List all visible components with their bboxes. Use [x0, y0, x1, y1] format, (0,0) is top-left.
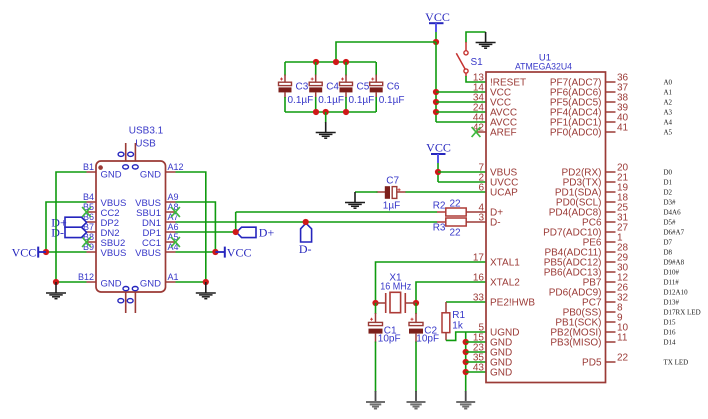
pin 29 PB5(ADC12) [606, 261, 616, 263]
svg-text:A5: A5 [664, 128, 673, 136]
svg-text:16 MHz: 16 MHz [380, 282, 411, 293]
svg-text:3: 3 [478, 213, 484, 224]
svg-text:22: 22 [617, 353, 629, 364]
node top rail junctions [313, 59, 319, 65]
svg-text:R1: R1 [452, 310, 465, 321]
no-connect A8 [171, 207, 180, 217]
connector USB3.1 body [96, 161, 166, 292]
pin A7 DN1 [166, 221, 176, 223]
svg-text:UCAP: UCAP [490, 188, 518, 199]
wire C2 to ground [415, 342, 417, 393]
wire to pin 44 AVCC [436, 121, 486, 123]
svg-text:D17RX LED: D17RX LED [664, 308, 701, 316]
pin 19 PD1(SDA) [606, 191, 616, 193]
wire PE2!HWB pin 33 to R1 [446, 301, 486, 303]
svg-text:C3: C3 [296, 82, 309, 93]
no-connect AREF [472, 127, 481, 137]
wire A1 GND [176, 281, 206, 283]
net flag D+ at DP2 [65, 217, 87, 227]
pin B7 DN2 [87, 231, 97, 233]
capacitor C1 10pF [375, 303, 377, 314]
wire switch S1 to ground [466, 32, 486, 43]
net flag D+ [236, 227, 256, 237]
node D+ junction [233, 229, 239, 235]
svg-text:D10#: D10# [664, 268, 680, 276]
pin 41 PF0(ADC0) [606, 131, 616, 133]
svg-text:16: 16 [473, 273, 485, 284]
svg-text:6: 6 [478, 183, 484, 194]
capacitor C2 10pF [415, 303, 417, 314]
wire to pin 24 AVCC [436, 111, 486, 113]
ground below C2 [415, 391, 417, 401]
svg-text:D-: D- [299, 242, 312, 256]
pin 1 PE6 [606, 241, 616, 243]
wire VCC stem to junction [435, 32, 437, 42]
svg-text:D9#A8: D9#A8 [664, 258, 685, 266]
svg-text:S1: S1 [471, 57, 484, 68]
wire decoupling top rail [285, 61, 376, 63]
svg-text:VCC: VCC [426, 141, 451, 155]
node GND junctions [463, 339, 469, 345]
node VCC junction at rail feed [433, 39, 439, 45]
pin 42 AREF [476, 131, 486, 133]
svg-text:A0: A0 [664, 78, 673, 86]
wire DP1 to D+ node [176, 231, 236, 233]
pin 31 PC6 [606, 221, 616, 223]
svg-text:D7: D7 [664, 238, 673, 246]
shield pins bottom [125, 292, 127, 313]
svg-text:VCC: VCC [227, 246, 252, 260]
svg-text:A6: A6 [168, 222, 179, 232]
svg-text:0.1µF: 0.1µF [318, 95, 344, 106]
shield pins top [125, 143, 127, 161]
wire B12 GND [56, 281, 87, 283]
pin B8 SBU2 [87, 241, 97, 243]
svg-text:0.1µF: 0.1µF [288, 95, 314, 106]
wire A9 VBUS down [176, 202, 216, 252]
pin A6 DP1 [166, 231, 176, 233]
svg-text:A1: A1 [168, 272, 179, 282]
wire D+ net row [236, 211, 438, 213]
svg-text:A9: A9 [168, 192, 179, 202]
ground at switch S1 [485, 32, 487, 43]
svg-text:10pF: 10pF [378, 334, 401, 345]
svg-text:43: 43 [473, 363, 485, 374]
node GND-left junction [53, 279, 59, 285]
pin B6 DP2 [87, 221, 97, 223]
node bottom rail junctions [313, 109, 319, 115]
wire decoupling bottom rail [285, 111, 376, 113]
pin 8 PB0(SS) [606, 311, 616, 313]
svg-text:PB3(MISO): PB3(MISO) [550, 338, 601, 349]
svg-text:D0: D0 [664, 168, 673, 176]
pin 1 marker [98, 165, 103, 170]
pin 26 PD6(ADC9) [606, 291, 616, 293]
svg-text:A2: A2 [664, 98, 673, 106]
wire B4 VBUS down [46, 202, 87, 252]
svg-text:GND: GND [101, 279, 122, 290]
svg-text:11: 11 [617, 333, 628, 344]
svg-text:R3: R3 [433, 223, 446, 234]
svg-text:PF0(ADC0): PF0(ADC0) [550, 128, 602, 139]
pin B5 CC2 [87, 211, 97, 213]
svg-text:D11#: D11# [664, 278, 680, 286]
no-connect B5 [82, 207, 91, 217]
svg-text:22: 22 [450, 199, 462, 210]
resistor R3 22 [437, 221, 446, 223]
wire D- net row DN1 to R3 [176, 221, 438, 223]
pin A9 VBUS [166, 201, 176, 203]
pin 32 PC7 [606, 301, 616, 303]
svg-text:D-: D- [51, 226, 64, 240]
wire to pin 14 VCC [436, 91, 486, 93]
node D- junction [303, 219, 309, 225]
node GND-right junction [203, 279, 209, 285]
svg-text:B12: B12 [78, 272, 94, 282]
ground right of USB [205, 282, 207, 293]
svg-text:TX LED: TX LED [664, 358, 689, 366]
svg-text:0.1µF: 0.1µF [379, 95, 405, 106]
net flag D- at DN2 [65, 227, 87, 237]
wire VCC vertical to IC power pins [435, 42, 437, 122]
ground below C1 [375, 391, 377, 401]
wire switch S1 to pin 13 !RESET [465, 73, 467, 76]
pin 25 PD4(ADC8) [606, 211, 616, 213]
pin 27 PD7(ADC10) [606, 231, 616, 233]
svg-text:C7: C7 [386, 176, 399, 187]
pin 37 PF6(ADC6) [606, 91, 616, 93]
svg-text:PE2!HWB: PE2!HWB [490, 298, 535, 309]
svg-text:D14: D14 [664, 338, 677, 346]
pin A12 GND [166, 171, 176, 173]
svg-text:XTAL2: XTAL2 [490, 278, 520, 289]
svg-text:10pF: 10pF [416, 334, 439, 345]
wire A12 GND down to A1 [176, 172, 206, 282]
pin 40 PF1(ADC1) [606, 121, 616, 123]
net flag D- [301, 223, 312, 242]
wire to UVCC pin 2 [438, 181, 486, 183]
wire XTAL1 pin 17 [376, 262, 487, 303]
pin 10 PB2(MOSI) [606, 331, 616, 333]
resistor R1 1k [445, 302, 447, 313]
svg-text:B1: B1 [83, 162, 94, 172]
pin 11 PB3(MISO) [606, 341, 616, 343]
capacitor C4 0.1uF [315, 62, 317, 76]
svg-text:A4: A4 [664, 118, 673, 126]
wire to GND pin 35 [466, 361, 486, 363]
wire D+ vertical from DP1 [235, 212, 237, 232]
capacitor C6 0.1uF [375, 62, 377, 76]
pin A5 CC1 [166, 241, 176, 243]
power symbol VCC left [38, 251, 46, 253]
svg-text:D4A6: D4A6 [664, 208, 682, 216]
ground below GND bus [465, 391, 467, 401]
ground below decoupling caps [325, 112, 327, 123]
wire to GND pin 23 [466, 351, 486, 353]
wire UCAP pin 6 to C7 [405, 191, 486, 193]
svg-text:D12A10: D12A10 [664, 288, 689, 296]
capacitor C7 1uF [377, 191, 386, 193]
wire C7 to ground [355, 191, 378, 193]
svg-text:17: 17 [473, 253, 485, 264]
svg-text:C4: C4 [326, 82, 339, 93]
switch S1 [465, 42, 467, 51]
pin 12 PB7 [606, 281, 616, 283]
pin B4 VBUS [87, 201, 97, 203]
ground at C7 [354, 192, 356, 203]
wire VCC feed to decoupling rail [336, 42, 436, 62]
pin 21 PD3(TX) [606, 181, 616, 183]
svg-text:D1: D1 [664, 178, 673, 186]
node VCC pin junctions [433, 89, 439, 95]
no-connect A5 [171, 237, 180, 247]
svg-text:GND: GND [140, 170, 161, 181]
wire to GND pin 43 [466, 371, 486, 373]
capacitor C5 0.1uF [345, 62, 347, 76]
svg-text:R2: R2 [433, 201, 446, 212]
svg-text:D15: D15 [664, 318, 677, 326]
svg-text:VCC: VCC [12, 246, 37, 260]
resistor R2 22 [437, 211, 446, 213]
svg-text:C5: C5 [357, 82, 370, 93]
svg-text:USB: USB [135, 139, 156, 150]
svg-text:A3: A3 [664, 108, 673, 116]
wire GND bus vertical [465, 332, 467, 392]
node VCC-left junction [43, 249, 49, 255]
pin B9 VBUS [87, 251, 97, 253]
node VCC-right junction [212, 249, 218, 255]
wire R1 to UGND pin 5 [446, 332, 486, 340]
svg-text:A12: A12 [168, 162, 184, 172]
pin 22 PD5 [606, 361, 616, 363]
wire C1 to ground [375, 342, 377, 393]
pin A1 GND [166, 281, 176, 283]
svg-text:D-: D- [490, 218, 501, 229]
svg-text:GND: GND [140, 279, 161, 290]
svg-text:D+: D+ [259, 226, 275, 240]
pin A4 VBUS [166, 251, 176, 253]
wire B1 GND down to B12 [56, 172, 87, 282]
pin 39 PF4(ADC4) [606, 111, 616, 113]
svg-text:XTAL1: XTAL1 [490, 258, 520, 269]
IC U1 ATMEGA32U4 body [486, 72, 606, 383]
wire A4 VBUS [176, 251, 216, 253]
svg-text:USB3.1: USB3.1 [129, 126, 164, 137]
svg-text:AREF: AREF [490, 128, 517, 139]
wire XTAL2 pin 16 [416, 282, 486, 303]
svg-text:D8: D8 [664, 248, 673, 256]
svg-text:GND: GND [101, 170, 122, 181]
svg-text:D13#: D13# [664, 298, 680, 306]
svg-text:ATMEGA32U4: ATMEGA32U4 [515, 62, 572, 73]
wire VCC to VBUS pin 7 [437, 163, 439, 182]
svg-text:0.1µF: 0.1µF [349, 95, 375, 106]
wire B9 VBUS [46, 251, 87, 253]
svg-text:C6: C6 [387, 82, 400, 93]
capacitor C3 0.1uF [284, 62, 286, 76]
power symbol VCC right [215, 251, 224, 253]
pin 28 PB4(ADC11) [606, 251, 616, 253]
svg-text:33: 33 [473, 293, 485, 304]
svg-text:1µF: 1µF [383, 201, 400, 212]
ground left of USB [55, 282, 57, 293]
svg-text:22: 22 [450, 228, 462, 239]
svg-text:D16: D16 [664, 328, 677, 336]
wire to GND pin 15 [466, 341, 486, 343]
pin 30 PB6(ADC13) [606, 271, 616, 273]
svg-text:GND: GND [490, 368, 512, 379]
svg-text:B4: B4 [83, 192, 94, 202]
pin 36 PF7(ADC7) [606, 81, 616, 83]
pin 18 PD0(SCL) [606, 201, 616, 203]
pin 20 PD2(RX) [606, 171, 616, 173]
svg-text:D2: D2 [664, 188, 673, 196]
pin B12 GND [87, 281, 97, 283]
pin A8 SBU1 [166, 211, 176, 213]
wire to pin 34 VCC [436, 101, 486, 103]
svg-text:1k: 1k [452, 321, 464, 332]
svg-text:D6#A7: D6#A7 [664, 228, 685, 236]
svg-text:VCC: VCC [425, 10, 450, 24]
svg-text:41: 41 [617, 123, 629, 134]
svg-text:D3#: D3# [664, 198, 677, 206]
crystal X1 16 MHz [372, 300, 378, 306]
pin 9 PB1(SCK) [606, 321, 616, 323]
pin 38 PF5(ADC5) [606, 101, 616, 103]
svg-text:VBUS: VBUS [101, 248, 127, 259]
no-connect B8 [82, 237, 91, 247]
svg-text:A1: A1 [664, 88, 673, 96]
svg-text:PD5: PD5 [582, 358, 602, 369]
svg-text:VBUS: VBUS [135, 248, 161, 259]
pin B1 GND [87, 171, 97, 173]
svg-text:D5#: D5# [664, 218, 677, 226]
